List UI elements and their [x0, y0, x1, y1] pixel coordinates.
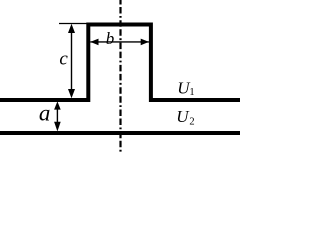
svg-text:U: U — [176, 107, 190, 126]
centerline (dash-dot axis) — [119, 0, 121, 152]
svg-text:b: b — [106, 29, 115, 48]
rib step profile U1 — [0, 25, 240, 101]
bottom boundary line U2 — [0, 131, 240, 135]
dimension arrow a shaft — [56, 104, 58, 128]
arrowhead b left — [90, 39, 98, 46]
arrowhead b right — [141, 39, 149, 46]
dimension arrow c shaft — [71, 26, 73, 96]
arrowhead c up — [68, 24, 75, 33]
svg-text:2: 2 — [189, 117, 194, 128]
svg-text:a: a — [39, 100, 51, 125]
extension line for c — [59, 23, 88, 25]
arrowhead c down — [68, 89, 75, 98]
arrowhead a up — [54, 101, 61, 109]
svg-text:1: 1 — [189, 87, 194, 98]
svg-text:c: c — [59, 49, 68, 70]
dimension arrow b line — [90, 41, 149, 43]
arrowhead a down — [54, 122, 61, 132]
